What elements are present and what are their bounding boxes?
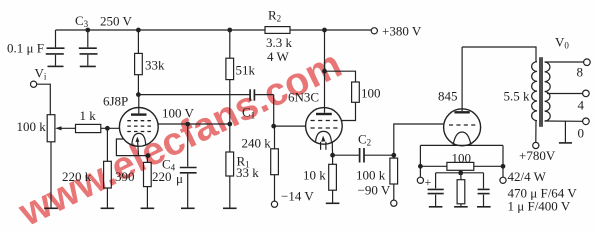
node 6N3C grid / 240k bbox=[272, 124, 276, 128]
svg-text:390: 390 bbox=[115, 169, 135, 184]
ground for 100k pot bbox=[44, 207, 58, 209]
svg-text:51k: 51k bbox=[236, 63, 256, 78]
node B rail-33k bbox=[137, 28, 141, 32]
svg-text:μ: μ bbox=[176, 171, 183, 186]
svg-text:240 k: 240 k bbox=[242, 136, 272, 151]
wire 250V rail left section bbox=[56, 29, 266, 31]
wire secondary ground branch bbox=[564, 121, 566, 142]
terminal filament left bbox=[417, 177, 423, 183]
ground for 220k bbox=[101, 207, 115, 209]
node cathode-390 bbox=[146, 154, 150, 158]
node rail-51k bbox=[228, 28, 232, 32]
terminal -14V bbox=[271, 201, 277, 207]
wire 845 plate to transformer bbox=[462, 47, 536, 62]
svg-text:8: 8 bbox=[577, 65, 584, 80]
svg-text:100 V: 100 V bbox=[162, 106, 195, 121]
ground for 470uF bbox=[429, 206, 443, 208]
node screen-C4 bbox=[186, 122, 190, 126]
tube 845 envelope bbox=[444, 109, 481, 146]
wire filament right drop bbox=[502, 145, 504, 177]
845 plate bbox=[454, 111, 469, 113]
wire 6J8P screen bbox=[158, 123, 230, 125]
svg-text:250 V: 250 V bbox=[100, 14, 133, 29]
watermark www.elecfans.com bbox=[11, 42, 348, 235]
node grid-220k bbox=[106, 127, 110, 131]
transformer primary coil 5.5k bbox=[532, 62, 537, 121]
terminal +780V bbox=[533, 142, 539, 148]
ground for 390 bbox=[141, 207, 155, 209]
node filament left bbox=[419, 165, 423, 169]
resistor 100k grid 845 bbox=[393, 155, 395, 158]
ground for 42 ohm bbox=[454, 206, 468, 208]
resistor 33k plate load bbox=[137, 30, 139, 53]
node wiper bbox=[459, 171, 463, 175]
node screen-51k-R1 bbox=[228, 122, 232, 126]
resistor 390 cathode bbox=[146, 156, 148, 163]
ground for 10k bbox=[326, 202, 340, 204]
svg-text:C2: C2 bbox=[358, 132, 371, 148]
wire filament left drop bbox=[419, 145, 421, 177]
resistor R2 3.3k 4W bbox=[265, 27, 290, 34]
svg-text:+780V: +780V bbox=[519, 148, 556, 163]
ground for R1 bbox=[223, 207, 237, 209]
node plate 6J8P bbox=[137, 93, 141, 97]
wire to 845 grid bbox=[394, 124, 444, 155]
tube 6N3C envelope bbox=[306, 108, 343, 145]
node A rail-C3 bbox=[86, 28, 90, 32]
845 filament arch bbox=[453, 132, 471, 145]
resistor 51k bbox=[229, 30, 231, 58]
svg-text:4 W: 4 W bbox=[267, 49, 290, 64]
node plate junction bbox=[323, 69, 327, 73]
svg-text:−14 V: −14 V bbox=[281, 189, 314, 204]
svg-text:C3: C3 bbox=[75, 13, 89, 29]
6N3C cathode lead bbox=[331, 141, 333, 155]
resistor R1 33k bbox=[229, 124, 231, 152]
node filament right bbox=[501, 165, 505, 169]
ground for 0.1uF bbox=[48, 65, 64, 67]
wire rail right section to +380V bbox=[290, 29, 371, 31]
wire secondary tap 8 bbox=[545, 61, 584, 63]
svg-text:845: 845 bbox=[438, 89, 458, 104]
svg-text:3.3 k: 3.3 k bbox=[266, 35, 293, 50]
wire plate up to rail bbox=[324, 30, 326, 71]
ground for C4 bbox=[181, 207, 195, 209]
svg-text:0.1 μ F: 0.1 μ F bbox=[7, 41, 44, 56]
capacitor C3 bbox=[87, 30, 89, 47]
svg-text:10 k: 10 k bbox=[303, 168, 326, 183]
wire right node to pot bbox=[474, 165, 503, 167]
svg-text:1 k: 1 k bbox=[80, 108, 97, 123]
resistor 10k bbox=[332, 155, 334, 164]
svg-text:+380 V: +380 V bbox=[382, 24, 422, 39]
filament top wire bbox=[420, 144, 503, 146]
6J8P grid rows bbox=[127, 121, 151, 132]
node cathode 6N3C bbox=[331, 153, 335, 157]
ground for 1uF bbox=[477, 206, 491, 208]
wiper node wire bbox=[436, 172, 484, 174]
resistor 220k bbox=[106, 128, 108, 161]
wire C1 down to 6N3C grid bbox=[274, 95, 306, 127]
terminal -90V bbox=[391, 200, 397, 206]
6N3C grid rows bbox=[311, 121, 338, 129]
hum pot wiper arrow bbox=[459, 171, 463, 175]
6J8P plate bbox=[131, 113, 147, 115]
capacitor 1uF bbox=[483, 173, 485, 189]
svg-text:Vi: Vi bbox=[35, 66, 47, 82]
svg-text:100 k: 100 k bbox=[17, 119, 47, 134]
svg-text:33k: 33k bbox=[145, 58, 165, 73]
capacitor C1 bbox=[249, 89, 251, 100]
terminal +380V bbox=[371, 28, 377, 34]
resistor 1k grid stopper bbox=[76, 124, 101, 132]
845 grid row bbox=[449, 124, 476, 126]
wire secondary tap 0 bbox=[545, 120, 583, 122]
capacitor C2 bbox=[359, 148, 361, 163]
svg-text:−90 V: −90 V bbox=[358, 183, 391, 198]
resistor 240k grid leak bbox=[274, 126, 276, 149]
node rail-6N3C bbox=[323, 28, 327, 32]
capacitor 470uF bbox=[435, 173, 437, 189]
6J8P heater arrow bbox=[138, 140, 139, 156]
svg-text:220: 220 bbox=[152, 169, 172, 184]
svg-text:5.5 k: 5.5 k bbox=[504, 89, 531, 104]
6J8P cathode arch bbox=[132, 133, 146, 144]
wire secondary tap 4 bbox=[547, 93, 583, 95]
wire primary bottom to +780V bbox=[535, 121, 537, 143]
6N3C heater leads bbox=[320, 142, 322, 150]
svg-text:100 k: 100 k bbox=[356, 168, 386, 183]
potentiometer 100 hum bbox=[447, 162, 474, 170]
terminal 4 bbox=[583, 90, 590, 97]
ground for C3 bbox=[80, 65, 96, 67]
svg-text:0: 0 bbox=[578, 126, 585, 141]
pot wiper arrow bbox=[58, 127, 76, 129]
wire plate to C1 bbox=[138, 94, 250, 96]
svg-text:4: 4 bbox=[578, 98, 585, 113]
svg-text:1 μ F/400 V: 1 μ F/400 V bbox=[508, 199, 571, 214]
transformer core bbox=[539, 57, 541, 127]
svg-text:6N3C: 6N3C bbox=[288, 90, 319, 105]
wire left node to pot bbox=[420, 165, 447, 167]
6J8P cathode lead bbox=[116, 139, 148, 156]
ground secondary bbox=[559, 142, 572, 144]
svg-text:6J8P: 6J8P bbox=[103, 94, 128, 109]
wire input to pot bbox=[37, 84, 51, 115]
svg-text:100: 100 bbox=[452, 151, 472, 166]
terminal 0 bbox=[583, 118, 590, 125]
tube 6J8P envelope bbox=[119, 108, 158, 147]
svg-text:V0: V0 bbox=[555, 35, 569, 51]
resistor 100 screen bbox=[325, 71, 356, 82]
svg-text:220 k: 220 k bbox=[62, 169, 92, 184]
terminal 8 bbox=[584, 59, 591, 66]
transformer secondary coil bbox=[545, 62, 551, 121]
6N3C cathode arch bbox=[316, 131, 332, 141]
terminal Vi input bbox=[30, 81, 36, 87]
svg-text:42/4 W: 42/4 W bbox=[508, 169, 547, 184]
svg-text:R2: R2 bbox=[268, 8, 281, 24]
6N3C plate bbox=[316, 113, 332, 115]
potentiometer 100k bbox=[47, 115, 55, 142]
capacitor 0.1uF bbox=[55, 30, 57, 47]
terminal filament right bbox=[500, 177, 506, 183]
capacitor C4 220u bbox=[187, 124, 189, 167]
resistor 42 ohm bbox=[460, 173, 462, 180]
node C2-100k-grid wire bbox=[392, 153, 396, 157]
svg-text:33 k: 33 k bbox=[236, 165, 259, 180]
svg-text:100: 100 bbox=[361, 86, 381, 101]
wire cathode to C2 bbox=[333, 154, 359, 156]
svg-text:+: + bbox=[425, 175, 432, 189]
